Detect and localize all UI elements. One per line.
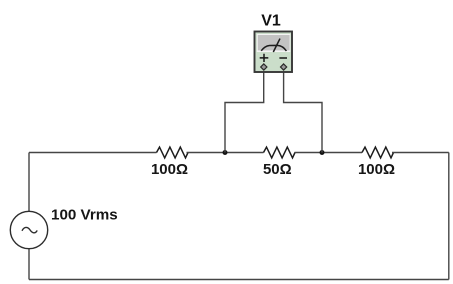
wire: bottom horizontal return: [29, 279, 449, 281]
wire: left vertical below source: [28, 248, 30, 280]
voltmeter scale arc: [261, 45, 286, 51]
svg-text:100 Vrms: 100 Vrms: [51, 206, 118, 223]
voltmeter display screen: [258, 35, 290, 50]
voltmeter U1 body: [255, 32, 293, 73]
voltmeter display bezel (white inset): [257, 34, 291, 52]
wire: voltmeter right lead (terminal down, right, down to node B): [284, 72, 322, 153]
node A junction dot (left of 50 ohm): [223, 150, 228, 155]
resistor R2 zigzag (50 ohm): [264, 147, 296, 158]
wire: voltmeter left lead (terminal down, left, down to node A): [225, 72, 264, 153]
AC source sine symbol: [22, 227, 37, 232]
voltmeter terminal diamond right: [281, 64, 287, 70]
node B junction dot (right of 50 ohm): [320, 150, 325, 155]
voltmeter plus mark: [260, 54, 269, 62]
voltmeter needle: [273, 39, 280, 52]
wire: right vertical side: [448, 153, 450, 280]
svg-text:50Ω: 50Ω: [263, 161, 292, 178]
wire: R3 to top-right corner: [392, 152, 449, 154]
resistor R3 zigzag (100 ohm right): [362, 147, 394, 158]
wire: R1 to R2 through node A: [187, 152, 264, 154]
wire: main horizontal net, left corner to R1: [29, 152, 157, 154]
AC voltage source V2 circle: [10, 211, 47, 248]
resistor R1 zigzag (100 ohm left): [157, 147, 188, 158]
voltmeter terminal diamond left: [261, 64, 267, 70]
svg-text:100Ω: 100Ω: [151, 161, 188, 178]
wire: left vertical above source: [28, 153, 30, 213]
wire: R2 to R3 through node B: [295, 152, 363, 154]
voltmeter minus mark: [279, 57, 287, 59]
svg-text:100Ω: 100Ω: [358, 161, 395, 178]
svg-text:V1: V1: [261, 13, 281, 30]
